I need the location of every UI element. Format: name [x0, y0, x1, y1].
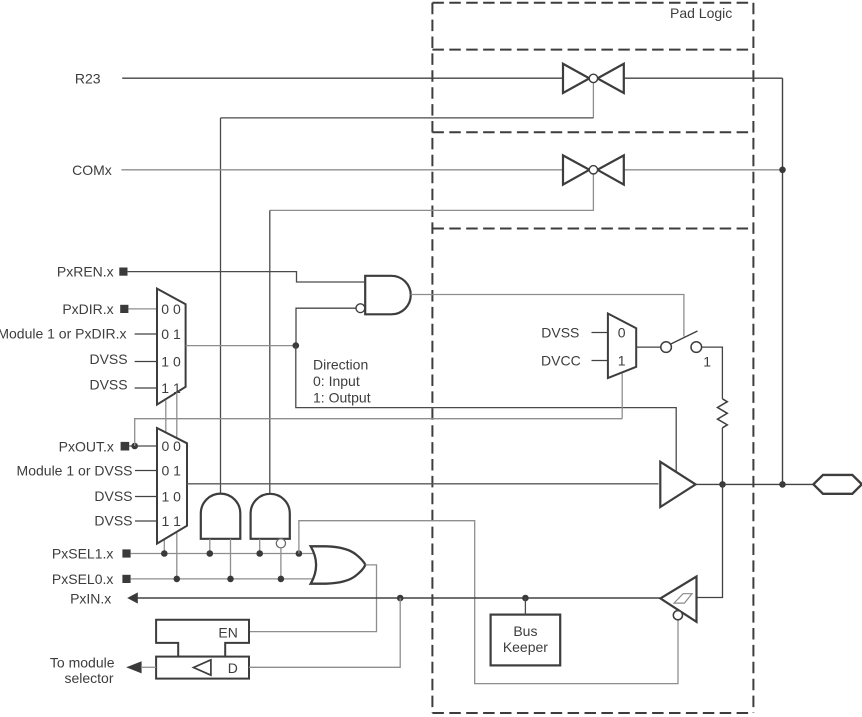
wire U5 input stub right — [230, 539, 232, 579]
node PxSEL0 U6 — [278, 576, 285, 583]
node PxSEL0 U5 — [227, 576, 234, 583]
wire D input from PxIN — [249, 598, 400, 667]
wire PxIN row — [137, 597, 660, 599]
wire mux1 input 01 stub — [135, 333, 157, 335]
wire mux1 input 10 stub — [135, 361, 157, 363]
svg-text:Keeper: Keeper — [503, 639, 548, 655]
wire select line B below mux2 — [176, 532, 178, 579]
dashed divider 1 — [432, 49, 753, 51]
svg-text:PxOUT.x: PxOUT.x — [59, 438, 114, 454]
svg-text:1 0: 1 0 — [162, 489, 182, 505]
wire mux2 output to output buffer — [187, 483, 659, 485]
wire PxSEL1 row — [131, 553, 316, 555]
wire pull mux output — [636, 346, 660, 348]
svg-text:DVSS: DVSS — [94, 488, 132, 504]
svg-text:Pad Logic: Pad Logic — [670, 5, 732, 21]
svg-text:1: 1 — [618, 353, 626, 369]
wire PxOUT to pull mux select — [135, 419, 623, 446]
node PxSEL0 select-B — [174, 576, 181, 583]
op AND gate U5 (vertical) — [201, 494, 241, 539]
svg-text:DVSS: DVSS — [94, 513, 132, 529]
wire select line A between muxes — [165, 400, 167, 432]
wire bus keeper stub — [524, 598, 526, 615]
wire U6 input stub right — [280, 548, 282, 579]
bubble U6 inverted input — [276, 539, 285, 548]
wire to module selector — [141, 666, 156, 668]
wire resistor bottom to pad line — [721, 428, 723, 485]
wire U1 inverted input from direction node — [296, 308, 356, 345]
svg-text:R23: R23 — [75, 71, 101, 87]
terminal square PxSEL1.x — [122, 549, 130, 557]
dashed divider 3 — [432, 228, 753, 230]
wire pad vertical net — [782, 78, 784, 484]
wire PxSEL0 row — [131, 578, 316, 580]
wire COMx tgate control drop — [270, 174, 594, 210]
latch D box — [156, 657, 249, 679]
svg-text:PxDIR.x: PxDIR.x — [62, 301, 113, 317]
svg-text:1 1: 1 1 — [162, 513, 182, 529]
node PxSEL1 select-A — [161, 550, 168, 557]
wire OR output to EN — [249, 565, 377, 632]
svg-text:PxSEL1.x: PxSEL1.x — [52, 546, 113, 562]
node PxIN to D latch — [397, 595, 404, 602]
wire DVSS stub pull mux — [592, 332, 608, 334]
mux U2 PxDIR select (trapezoid) — [157, 289, 186, 405]
terminal square PxDIR.x — [120, 305, 128, 313]
svg-text:0 0: 0 0 — [162, 438, 182, 454]
svg-text:Direction: Direction — [313, 357, 368, 373]
node PxSEL1 U6 — [256, 550, 263, 557]
node direction junction — [293, 342, 300, 349]
wire R23 control horizontal — [221, 117, 594, 119]
svg-text:0 1: 0 1 — [161, 326, 181, 342]
svg-text:Module 1 or DVSS: Module 1 or DVSS — [17, 462, 133, 478]
wire COMx input — [121, 169, 563, 171]
terminal square PxREN.x — [119, 268, 127, 276]
wire pad line — [696, 483, 814, 485]
svg-text:1 1: 1 1 — [161, 380, 181, 396]
wire mux2 input 10 stub — [135, 496, 157, 498]
svg-text:1: 1 — [703, 353, 711, 369]
pad hexagon — [813, 475, 861, 494]
wire select line B between muxes — [176, 393, 178, 439]
transmission gate T1 (R23) — [563, 64, 624, 93]
svg-text:0: 0 — [618, 325, 626, 341]
wire PxDIR.x stub — [128, 308, 157, 310]
svg-text:DVCC: DVCC — [541, 353, 581, 369]
wire R23 tgate control drop — [592, 83, 594, 118]
switch S1 lever — [671, 331, 698, 344]
svg-text:PxSEL0.x: PxSEL0.x — [52, 571, 113, 587]
transmission gate T2 (COMx) — [563, 155, 624, 184]
svg-text:0 0: 0 0 — [161, 301, 181, 317]
wire pull mux select — [621, 373, 623, 418]
resistor R pull — [718, 399, 728, 428]
svg-text:DVSS: DVSS — [541, 325, 579, 341]
wire select line A below mux2 — [163, 539, 165, 553]
arrow PxIN.x — [127, 592, 138, 603]
svg-text:D: D — [228, 660, 238, 676]
wire U1 output to pull switch control — [411, 295, 684, 337]
wire direction to output buffer enable — [296, 346, 676, 472]
switch S1 contact circles — [661, 342, 702, 353]
clock triangle D latch — [194, 660, 211, 675]
wire PxOUT.x stub — [129, 445, 157, 447]
mux U4 PxOUT select (trapezoid) — [157, 428, 187, 544]
op OR gate U7 — [311, 546, 366, 583]
wire switch to resistor top — [702, 347, 723, 399]
bubble U1 lower input — [356, 304, 365, 313]
node PxOUT junction — [131, 443, 138, 450]
node pad/tgate junction — [779, 481, 786, 488]
svg-text:0 1: 0 1 — [162, 463, 182, 479]
wire AND2 output vertical — [269, 210, 271, 493]
svg-text:1: Output: 1: Output — [313, 390, 371, 406]
svg-text:EN: EN — [218, 625, 237, 641]
wire mux1 output to direction node — [186, 345, 296, 347]
schmitt trigger U9 input buffer — [660, 577, 696, 622]
wire DVCC stub pull mux — [592, 360, 608, 362]
svg-text:To module: To module — [50, 654, 115, 670]
wire mux2 input 01 stub — [135, 470, 157, 472]
wire R23 input — [122, 77, 563, 79]
wire COMx tgate output — [624, 169, 783, 171]
Pad Logic dashed boundary box — [432, 3, 753, 713]
hysteresis glyph — [674, 594, 692, 603]
wire mux2 input 11 stub — [135, 520, 157, 522]
svg-text:PxREN.x: PxREN.x — [57, 264, 114, 280]
node pad-vertical/COMx junction — [779, 167, 786, 174]
wire output buffer enable entry is above; output buffer U8 — [660, 462, 695, 507]
wire AND1 output vertical — [220, 118, 222, 494]
svg-text:PxIN.x: PxIN.x — [70, 590, 111, 606]
svg-text:COMx: COMx — [72, 162, 112, 178]
node PxSEL1 enable branch — [296, 550, 303, 557]
node pad/resistor junction — [719, 481, 726, 488]
svg-text:0: Input: 0: Input — [313, 373, 360, 389]
mux U3 pullup/pulldown select — [608, 314, 636, 379]
node PxIN to bus keeper — [522, 595, 529, 602]
wire mux1 input 11 stub — [135, 387, 157, 389]
svg-text:DVSS: DVSS — [89, 351, 127, 367]
wire PxSEL1 to input-buffer disable — [299, 521, 678, 684]
dashed divider 2 — [432, 131, 753, 133]
op AND gate U1 — [365, 276, 411, 315]
arrow to module selector — [126, 661, 142, 673]
latch EN box — [156, 620, 249, 657]
op AND gate U6 (vertical) — [251, 494, 290, 539]
svg-text:1 0: 1 0 — [161, 354, 181, 370]
bubble schmitt disable — [673, 611, 682, 620]
svg-text:selector: selector — [64, 670, 113, 686]
svg-text:Module 1 or PxDIR.x: Module 1 or PxDIR.x — [0, 326, 127, 342]
wire U5 input stub left — [209, 539, 211, 554]
wire U6 input stub left — [259, 539, 261, 554]
Bus Keeper box — [491, 615, 561, 666]
wire PxREN.x to AND gate U1 — [128, 272, 366, 282]
svg-text:DVSS: DVSS — [89, 376, 127, 392]
node PxSEL1 U5 — [207, 550, 214, 557]
terminal square PxOUT.x — [121, 442, 130, 451]
wire R23 tgate output — [624, 77, 783, 79]
svg-text:Bus: Bus — [513, 623, 537, 639]
wire pad to schmitt input — [698, 484, 723, 597]
terminal square PxSEL0.x — [122, 575, 130, 583]
